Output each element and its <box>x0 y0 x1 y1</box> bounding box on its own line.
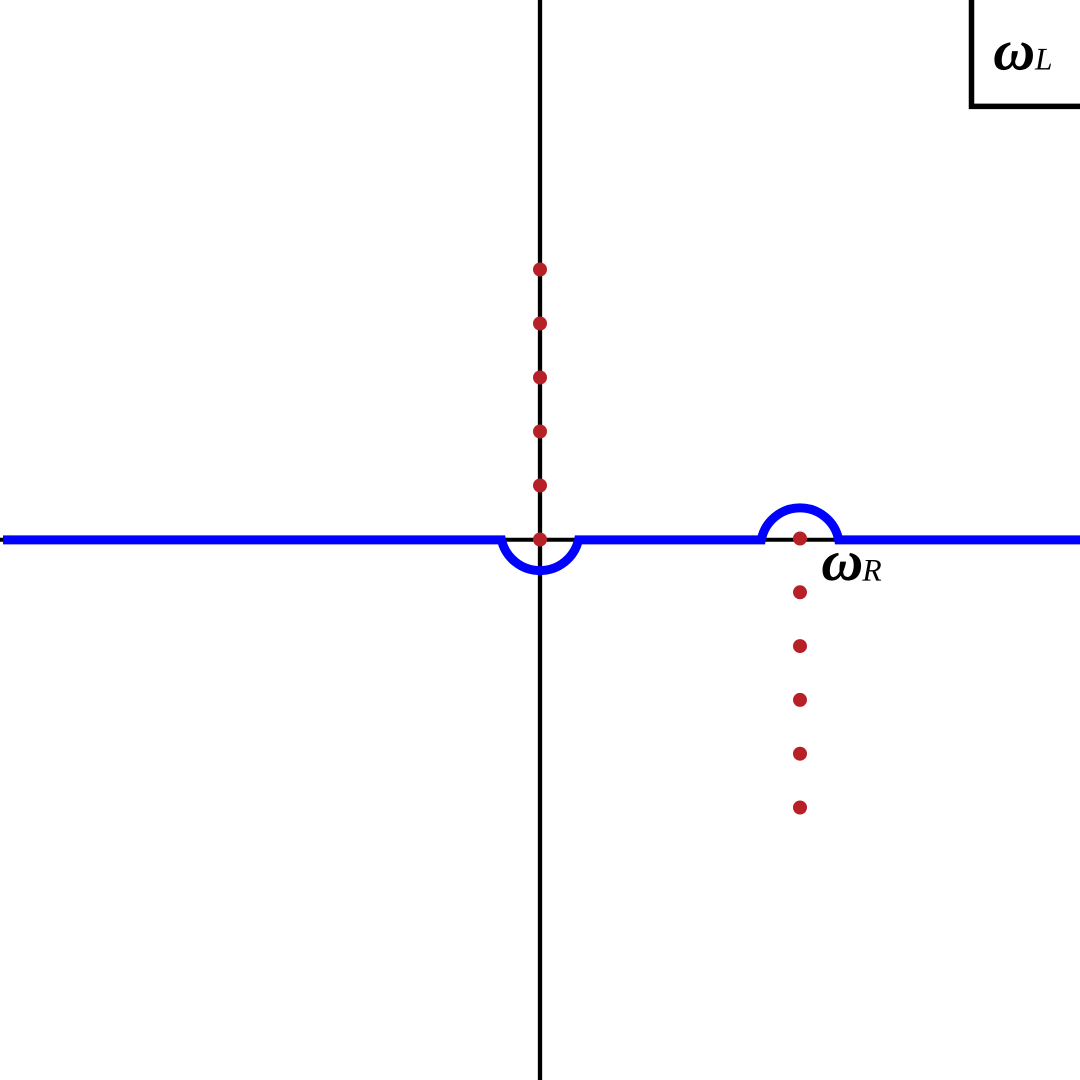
dot at omega_R <box>793 532 807 546</box>
pole dots descending from omega_R <box>793 532 807 815</box>
dot right -4 <box>793 747 807 761</box>
dot at origin <box>533 533 547 547</box>
legend box frame (top-right corner) <box>972 0 1080 106</box>
real axis (horizontal) <box>0 538 1080 542</box>
dot right -5 <box>793 801 807 815</box>
imaginary axis (vertical) <box>538 0 542 1080</box>
blue integration contour with dip below origin and bump above omega_R <box>3 508 1080 571</box>
dot right -2 <box>793 639 807 653</box>
pole dots on positive imaginary axis <box>533 263 547 547</box>
dot axis +4 <box>533 317 547 331</box>
dot right -1 <box>793 585 807 599</box>
dot axis +2 <box>533 425 547 439</box>
dot axis +5 <box>533 263 547 277</box>
label omega_R <box>823 553 882 581</box>
dot axis +3 <box>533 371 547 385</box>
label omega_L <box>994 42 1051 70</box>
dot axis +1 <box>533 479 547 493</box>
dot right -3 <box>793 693 807 707</box>
